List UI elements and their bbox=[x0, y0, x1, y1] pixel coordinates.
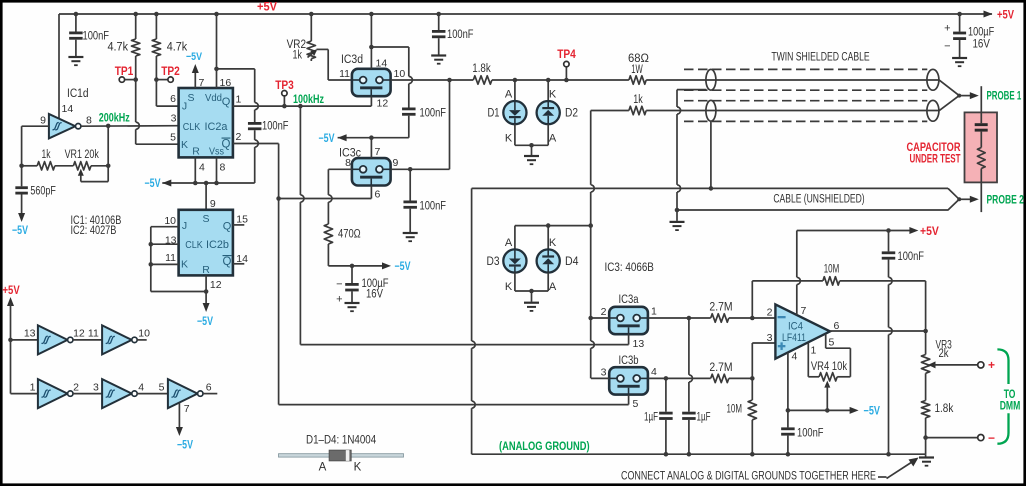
-5V line under IC2a bbox=[162, 182, 254, 184]
svg-text:IC2a: IC2a bbox=[205, 121, 229, 133]
junction on analog ground rail bbox=[750, 452, 755, 457]
svg-text:VR1 20k: VR1 20k bbox=[65, 149, 99, 161]
wire row1 input bbox=[11, 339, 38, 341]
diode D3 clamp bbox=[514, 226, 516, 250]
svg-text:9: 9 bbox=[40, 115, 46, 127]
svg-text:16V: 16V bbox=[366, 289, 383, 301]
junction on analog ground rail bbox=[664, 452, 669, 457]
wire Vdd branch to 100nF bbox=[217, 68, 255, 70]
svg-text:CABLE (UNSHIELDED): CABLE (UNSHIELDED) bbox=[773, 194, 864, 206]
diode D1 clamp bbox=[514, 80, 516, 101]
junction on +5V rail bbox=[436, 12, 441, 17]
capacitor 100nF (IC1 supply decoupling) bbox=[75, 14, 77, 32]
svg-text:J: J bbox=[182, 220, 187, 232]
IC2a pin7 S to -5V arrow bbox=[194, 68, 196, 88]
ground bbox=[431, 54, 446, 56]
svg-text:Q: Q bbox=[223, 221, 232, 233]
junction on +5V rail bbox=[214, 12, 219, 17]
capacitor 100uF 16V (negative rail reservoir) bbox=[351, 266, 353, 283]
svg-text:3: 3 bbox=[767, 332, 773, 344]
svg-text:D4: D4 bbox=[565, 256, 579, 268]
wire 4.7k to J bbox=[155, 56, 157, 106]
svg-text:Q: Q bbox=[222, 139, 231, 151]
svg-text:100nF: 100nF bbox=[898, 251, 925, 263]
svg-text:A: A bbox=[549, 281, 557, 293]
svg-text:100nF: 100nF bbox=[262, 121, 289, 133]
IC2a Qbar wire bbox=[233, 143, 279, 145]
svg-text:PROBE 1: PROBE 1 bbox=[987, 91, 1022, 103]
wire to -5V arrow bbox=[21, 195, 23, 215]
wire gates 2-3 bbox=[73, 393, 102, 395]
svg-text:100nF: 100nF bbox=[420, 108, 447, 120]
svg-text:K: K bbox=[354, 462, 362, 474]
test point TP4 bbox=[565, 67, 567, 80]
svg-text:−5V: −5V bbox=[864, 406, 881, 418]
gate 5 pin 7 to -5V bbox=[178, 403, 180, 428]
svg-text:8: 8 bbox=[345, 157, 351, 169]
svg-text:1k: 1k bbox=[633, 94, 643, 106]
svg-text:IC3b: IC3b bbox=[619, 355, 639, 367]
wire IC3a pin 1 to 2.7M bbox=[649, 317, 711, 319]
diode D2 clamp bbox=[547, 80, 549, 101]
analog ground rail bbox=[472, 453, 926, 455]
arrow to probe 2 bbox=[959, 198, 970, 200]
svg-text:3: 3 bbox=[93, 381, 99, 393]
IC3d pin 12 from 100kHz wire bbox=[370, 96, 372, 106]
svg-text:1k: 1k bbox=[42, 149, 51, 161]
svg-text:K: K bbox=[505, 133, 513, 145]
svg-text:15: 15 bbox=[236, 214, 248, 226]
cable 2 shield to analog ground bbox=[710, 122, 712, 189]
schmitt inverter IC1 gate 1-2 bbox=[38, 379, 68, 408]
svg-text:1: 1 bbox=[651, 306, 657, 318]
svg-text:9: 9 bbox=[210, 198, 216, 210]
svg-text:TP1: TP1 bbox=[115, 66, 134, 78]
svg-text:+5V: +5V bbox=[997, 8, 1014, 22]
resistor 1.8k bbox=[473, 76, 492, 84]
svg-text:12: 12 bbox=[73, 328, 85, 340]
svg-text:1: 1 bbox=[236, 94, 242, 106]
svg-text:1: 1 bbox=[811, 345, 817, 357]
svg-text:14: 14 bbox=[62, 103, 74, 115]
+5V rail analog bbox=[797, 230, 910, 232]
wire IC3b pin 3 from pin 2 node bbox=[591, 377, 609, 379]
svg-text:7: 7 bbox=[199, 77, 205, 89]
svg-text:100nF: 100nF bbox=[797, 428, 824, 440]
svg-text:11: 11 bbox=[165, 252, 176, 264]
wire D3 D4 tops bbox=[515, 225, 591, 227]
+5V arrow top right bbox=[984, 11, 993, 18]
svg-text:100µF: 100µF bbox=[968, 27, 994, 39]
svg-text:2: 2 bbox=[236, 131, 242, 143]
capacitor under test box bbox=[965, 112, 998, 182]
svg-text:1µF: 1µF bbox=[644, 412, 658, 424]
svg-text:1: 1 bbox=[30, 381, 36, 393]
svg-text:−: − bbox=[988, 431, 995, 445]
resistor 10M (bias) bbox=[751, 378, 753, 400]
svg-text:K: K bbox=[549, 237, 557, 249]
test point TP3 bbox=[283, 96, 285, 106]
svg-text:+5V: +5V bbox=[257, 0, 277, 14]
cable 2 shield dashes bbox=[684, 100, 927, 102]
svg-text:9: 9 bbox=[393, 157, 399, 169]
op-amp offset pins 1 and 5 to VR4 bbox=[807, 343, 809, 377]
svg-text:10: 10 bbox=[138, 328, 150, 340]
ground bbox=[952, 57, 967, 59]
junction on +5V rail bbox=[133, 12, 138, 17]
wire IC2a Q down to IC3a bbox=[299, 106, 301, 195]
IC2a Q output wire (100kHz) bbox=[233, 105, 372, 107]
svg-text:7: 7 bbox=[184, 403, 190, 415]
resistor 10M feedback bbox=[752, 280, 823, 282]
schmitt inverter IC1 gate 11-10 bbox=[102, 325, 132, 354]
flip-flop IC2a (4027B) bbox=[179, 88, 233, 157]
svg-text:6: 6 bbox=[375, 189, 381, 201]
capacitor 100nF rail decoupling at IC3 bbox=[438, 14, 440, 30]
capacitor 100nF (op-amp V- decoupling) bbox=[787, 410, 789, 427]
wire 4.7k to K with hop over 200kHz line bbox=[135, 56, 137, 80]
svg-text:10M: 10M bbox=[727, 404, 743, 416]
svg-text:1k: 1k bbox=[293, 50, 303, 62]
svg-text:VR4 10k: VR4 10k bbox=[811, 361, 847, 373]
svg-text:K: K bbox=[181, 259, 188, 271]
cable 2 left ferrule bbox=[706, 100, 716, 121]
svg-text:10M: 10M bbox=[824, 264, 840, 276]
VR2 wiper to IC3d pin 11 bbox=[308, 52, 314, 57]
svg-text:Vdd: Vdd bbox=[205, 92, 222, 104]
svg-text:A: A bbox=[549, 133, 557, 145]
op-amp pin 7 to +5V bbox=[796, 231, 798, 278]
junction on +5V rail bbox=[369, 12, 374, 17]
svg-text:J: J bbox=[182, 101, 187, 113]
resistor 2.7M (probe 2 input) bbox=[711, 374, 729, 382]
bracket TO DMM bbox=[997, 349, 1008, 384]
svg-text:2.7M: 2.7M bbox=[709, 362, 732, 374]
junction on analog ground rail bbox=[687, 452, 692, 457]
wire to IC2b pin 9 bbox=[205, 183, 207, 210]
svg-text:+: + bbox=[336, 294, 342, 306]
svg-text:7: 7 bbox=[801, 305, 807, 317]
svg-text:PROBE 2: PROBE 2 bbox=[987, 195, 1024, 207]
svg-text:470Ω: 470Ω bbox=[338, 229, 361, 241]
svg-text:100kHz: 100kHz bbox=[293, 94, 324, 106]
svg-text:+5V: +5V bbox=[3, 285, 20, 297]
svg-text:D3: D3 bbox=[487, 256, 500, 268]
svg-text:IC3: 4066B: IC3: 4066B bbox=[605, 262, 655, 274]
svg-text:LF411: LF411 bbox=[782, 332, 806, 344]
svg-text:IC3d: IC3d bbox=[341, 54, 363, 66]
wire output 10 bbox=[137, 339, 147, 341]
wire IC3a pin 2 bbox=[591, 317, 609, 319]
ground bbox=[68, 56, 83, 58]
ground bbox=[524, 155, 539, 157]
cable 1 right ferrule bbox=[927, 69, 939, 90]
svg-text:IC3a: IC3a bbox=[619, 294, 639, 306]
wire +5V to gate inputs bbox=[7, 297, 14, 306]
wire IC3b pin 5 from IC2a Qbar bbox=[628, 395, 630, 405]
wire rail to IC1d pin 14 bbox=[58, 14, 60, 119]
diode pictorial leads bbox=[279, 454, 404, 457]
svg-text:TP3: TP3 bbox=[275, 80, 294, 92]
ground bbox=[345, 302, 360, 304]
svg-text:2k: 2k bbox=[939, 348, 949, 360]
wire output 6 bbox=[203, 393, 217, 395]
svg-text:K: K bbox=[181, 139, 188, 151]
capacitor 100nF across supplies bbox=[254, 69, 256, 103]
svg-text:2: 2 bbox=[601, 306, 607, 318]
node feedback left vertical bbox=[21, 126, 23, 186]
svg-text:4: 4 bbox=[199, 162, 205, 174]
wire row2 input bbox=[11, 393, 38, 395]
wire pin14 branch to 100nF bbox=[371, 46, 408, 48]
svg-text:+: + bbox=[988, 358, 995, 372]
wire sense line bbox=[450, 79, 474, 81]
ESR resistor in DUT bbox=[980, 132, 982, 148]
IC2b Qbar stub bbox=[233, 263, 244, 265]
svg-text:−: − bbox=[336, 279, 342, 291]
resistor 2.7M (probe 1 input) bbox=[711, 314, 729, 322]
svg-text:100nF: 100nF bbox=[420, 201, 447, 213]
IC3c pin 6 wire from IC2a Qbar bbox=[279, 198, 372, 200]
svg-text:5: 5 bbox=[829, 337, 835, 349]
wire D3 D4 commons bbox=[515, 290, 548, 292]
svg-text:1µF: 1µF bbox=[697, 412, 711, 424]
ground bbox=[670, 221, 685, 223]
capacitor 1uF (probe 2 node) bbox=[665, 378, 667, 411]
svg-text:100nF: 100nF bbox=[83, 31, 110, 43]
junction on +5V rail bbox=[154, 12, 159, 17]
svg-text:−5V: −5V bbox=[395, 261, 411, 273]
cable 1 left ferrule bbox=[706, 69, 716, 90]
junction on +5V rail bbox=[957, 12, 962, 17]
IC2a pin16 Vdd to rail bbox=[216, 14, 218, 88]
svg-text:5: 5 bbox=[170, 132, 176, 144]
svg-text:CONNECT ANALOG & DIGITAL GROUN: CONNECT ANALOG & DIGITAL GROUNDS TOGETHE… bbox=[621, 471, 876, 483]
wire to - terminal bbox=[926, 437, 978, 439]
capacitor 100uF 16V (positive rail reservoir) bbox=[959, 14, 961, 32]
svg-text:10: 10 bbox=[394, 68, 406, 80]
diode D4 clamp bbox=[547, 226, 549, 250]
wire gates 12-11 bbox=[73, 339, 102, 341]
svg-text:12: 12 bbox=[377, 98, 389, 110]
svg-text:10: 10 bbox=[164, 215, 176, 227]
cable unshielded outline bbox=[677, 188, 959, 210]
IC2a pins 4 8 to -5V line bbox=[194, 157, 196, 183]
schmitt inverter IC1 gate 13-12 bbox=[38, 325, 68, 354]
wire Qbar down to analog switch IC3c pin 6 line bbox=[278, 144, 280, 405]
svg-text:1.8k: 1.8k bbox=[472, 63, 491, 75]
wire D1 D2 commons bbox=[515, 144, 548, 146]
svg-text:2: 2 bbox=[73, 381, 79, 393]
svg-text:100nF: 100nF bbox=[447, 29, 474, 41]
svg-text:14: 14 bbox=[376, 58, 388, 70]
svg-text:D2: D2 bbox=[565, 108, 578, 120]
svg-text:2.7M: 2.7M bbox=[709, 302, 732, 314]
svg-text:CLK: CLK bbox=[183, 122, 201, 133]
svg-text:7: 7 bbox=[375, 146, 381, 158]
ground bbox=[524, 302, 539, 304]
svg-text:6: 6 bbox=[206, 381, 212, 393]
svg-text:IC2b: IC2b bbox=[206, 239, 229, 251]
capacitor 560pF bbox=[15, 186, 28, 189]
svg-text:IC1d: IC1d bbox=[67, 88, 89, 100]
wire 1k down to D3 D4 and IC3a bbox=[590, 111, 592, 185]
svg-text:A: A bbox=[505, 89, 513, 101]
svg-text:−5V: −5V bbox=[319, 133, 335, 145]
IC3c pin 7 to -5V line bbox=[370, 138, 372, 158]
wire 470R to -5V arrow bbox=[328, 265, 383, 267]
svg-text:5: 5 bbox=[633, 398, 639, 410]
resistor 1.8k output divider bbox=[921, 401, 929, 418]
svg-text:4.7k: 4.7k bbox=[108, 42, 129, 54]
svg-text:IC2: 4027B: IC2: 4027B bbox=[71, 225, 117, 237]
svg-text:6: 6 bbox=[170, 93, 176, 105]
resistor 68R 1W bbox=[629, 76, 646, 84]
probe tip line bbox=[980, 86, 982, 112]
svg-text:A: A bbox=[505, 237, 513, 249]
wire IC3a pin 13 from 100kHz bbox=[628, 334, 630, 344]
svg-text:CAPACITOR: CAPACITOR bbox=[907, 142, 962, 154]
resistor 1k drive return bbox=[591, 110, 629, 112]
VR1 wiper bbox=[78, 169, 84, 176]
flip-flop IC2b (4027B) bbox=[179, 210, 233, 276]
svg-text:R: R bbox=[202, 264, 210, 276]
wire IC3b pin 4 to 2.7M bbox=[649, 377, 711, 379]
svg-text:1.8k: 1.8k bbox=[935, 403, 954, 415]
IC2b Q stub bbox=[233, 224, 244, 226]
svg-text:D1–D4: 1N4004: D1–D4: 1N4004 bbox=[306, 435, 377, 447]
svg-text:560pF: 560pF bbox=[30, 186, 55, 198]
svg-text:5: 5 bbox=[159, 381, 165, 393]
svg-text:S: S bbox=[187, 92, 194, 104]
svg-text:D1: D1 bbox=[488, 108, 500, 120]
resistor 4.7k (pin K pull-up) bbox=[135, 14, 137, 39]
svg-text:−5V: −5V bbox=[12, 225, 28, 237]
IC2b pin 12 R to -5V bbox=[205, 275, 207, 303]
op-amp IC4 LF411 bbox=[775, 304, 830, 358]
wire pin8 down to 470R bbox=[327, 169, 329, 195]
capacitor 100nF (IC3c out to ground) bbox=[409, 169, 411, 200]
svg-text:UNDER TEST: UNDER TEST bbox=[910, 154, 961, 166]
svg-text:1W: 1W bbox=[631, 64, 643, 76]
schmitt inverter IC1 gate 3-4 bbox=[102, 379, 132, 408]
wire gates 4-5 bbox=[137, 393, 168, 395]
svg-text:8: 8 bbox=[220, 162, 226, 174]
wire +5V top rail bbox=[59, 13, 992, 15]
cable 2 right ferrule bbox=[927, 100, 939, 121]
svg-text:11: 11 bbox=[88, 328, 99, 340]
svg-text:3: 3 bbox=[601, 367, 607, 379]
svg-text:200kHz: 200kHz bbox=[99, 113, 130, 125]
svg-text:−5V: −5V bbox=[145, 178, 161, 190]
svg-text:4: 4 bbox=[792, 351, 798, 363]
svg-text:TO: TO bbox=[1004, 389, 1016, 401]
svg-text:K: K bbox=[505, 281, 513, 293]
op-amp pin 4 to -5V bbox=[787, 353, 789, 411]
svg-text:−5V: −5V bbox=[197, 316, 213, 328]
svg-text:16: 16 bbox=[220, 77, 232, 89]
main ground symbol bbox=[925, 454, 927, 456]
svg-text:R: R bbox=[192, 146, 200, 158]
svg-text:13: 13 bbox=[24, 328, 36, 340]
svg-text:16V: 16V bbox=[973, 39, 991, 51]
wire IC1d input bbox=[22, 125, 49, 127]
-5V line op-amp bbox=[788, 409, 850, 411]
svg-text:+: + bbox=[944, 23, 950, 35]
junction on +5V rail bbox=[74, 12, 79, 17]
IC3d pin 14 to rail bbox=[370, 14, 372, 69]
svg-text:2: 2 bbox=[767, 307, 773, 319]
svg-text:Q: Q bbox=[223, 256, 232, 268]
cable 1 shield dashes bbox=[684, 68, 927, 70]
IC3c pin 8 wire bbox=[328, 168, 352, 170]
capacitor 100nF (IC3d out to -5V) bbox=[408, 47, 410, 76]
schmitt inverter IC1 gate 5-6 bbox=[168, 379, 198, 408]
svg-text:(ANALOG GROUND): (ANALOG GROUND) bbox=[499, 441, 590, 453]
IC3c pin 9 wire bbox=[391, 168, 450, 170]
svg-text:−5V: −5V bbox=[186, 51, 203, 63]
svg-text:3: 3 bbox=[171, 113, 177, 125]
op-amp output pin 6 bbox=[830, 330, 926, 332]
svg-text:TP4: TP4 bbox=[557, 49, 576, 61]
wire 200kHz output to IC2a CLK bbox=[81, 125, 179, 128]
VR3 wiper to + terminal bbox=[928, 361, 936, 368]
svg-text:4.7k: 4.7k bbox=[167, 42, 188, 54]
svg-text:TWIN SHIELDED CABLE: TWIN SHIELDED CABLE bbox=[771, 52, 870, 64]
junction on +5V rail bbox=[309, 12, 314, 17]
svg-text:12: 12 bbox=[210, 279, 222, 291]
svg-text:K: K bbox=[549, 89, 557, 101]
wires IC2b J CLK K tied bbox=[151, 226, 179, 228]
svg-text:8: 8 bbox=[86, 115, 92, 127]
svg-text:11: 11 bbox=[339, 68, 350, 80]
cable centre conductors to probe 1 bbox=[939, 80, 959, 96]
svg-text:Q: Q bbox=[222, 96, 231, 108]
svg-text:CLK: CLK bbox=[185, 240, 203, 251]
svg-text:−: − bbox=[944, 41, 950, 53]
ground bbox=[403, 232, 418, 234]
svg-text:−5V: −5V bbox=[177, 440, 193, 452]
svg-text:4: 4 bbox=[651, 366, 657, 378]
wire analog ground vertical bbox=[471, 188, 473, 341]
junction on analog ground rail bbox=[786, 452, 791, 457]
svg-text:A: A bbox=[319, 462, 327, 474]
diode pictorial body bbox=[329, 450, 351, 461]
IC3d pin 10 output wire bbox=[391, 79, 450, 81]
svg-text:S: S bbox=[202, 213, 209, 225]
junction on analog ground rail bbox=[886, 452, 891, 457]
svg-text:+5V: +5V bbox=[920, 224, 939, 238]
wire to op-amp pin 3 bbox=[751, 343, 753, 378]
svg-text:6: 6 bbox=[834, 320, 840, 332]
capacitor 100nF (op-amp V+ decoupling) bbox=[888, 231, 890, 252]
resistor 4.7k (pin J pull-up) bbox=[155, 14, 157, 39]
wire analog ground to cable bbox=[472, 187, 948, 189]
svg-text:13: 13 bbox=[633, 338, 645, 350]
-5V line IC3c pin7 bbox=[338, 137, 409, 139]
svg-text:DMM: DMM bbox=[1000, 401, 1021, 413]
cable 1 shield to mains ground bbox=[677, 89, 706, 91]
capacitor symbol in DUT bbox=[980, 112, 982, 123]
svg-text:IC4: IC4 bbox=[788, 321, 803, 333]
svg-text:4: 4 bbox=[138, 381, 144, 393]
resistor 470R bbox=[324, 224, 332, 244]
capacitor 1uF (probe 1 node) bbox=[688, 318, 690, 375]
